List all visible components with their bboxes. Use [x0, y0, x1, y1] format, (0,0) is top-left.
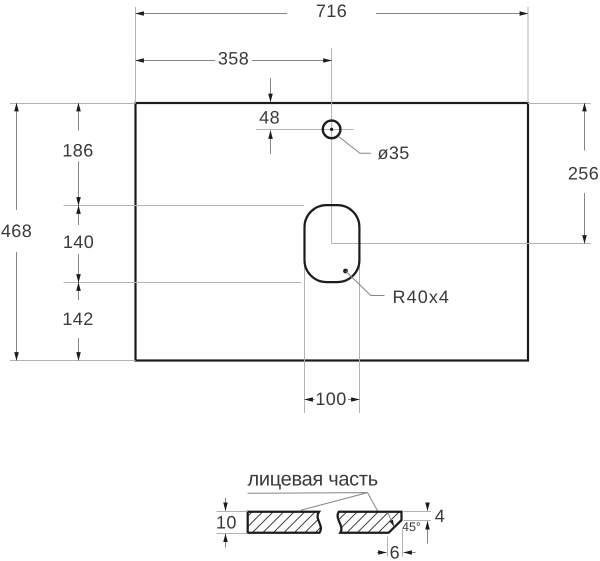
dimension 468 lower part [16, 252, 18, 361]
extension line basin right vertical (100) [359, 266, 361, 413]
extension line top-right horizontal (256) [528, 103, 591, 105]
dimension 142 upper part [78, 283, 80, 301]
45 degree leader arrow [388, 512, 394, 526]
svg-text:256: 256 [568, 163, 599, 183]
dimension 358 line right part [252, 60, 332, 62]
dimension 256 lower part [584, 193, 586, 244]
leader to ø35 label [339, 137, 372, 154]
dimension 140 lower part [78, 254, 80, 283]
extension line 10 top [217, 511, 248, 513]
basin cutout R40x4 [305, 205, 360, 282]
dimension 186 upper part [78, 103, 80, 131]
svg-text:358: 358 [218, 49, 249, 69]
dimension 716 line right part [376, 13, 528, 15]
extension line 4 bottom [404, 520, 432, 522]
centerline through faucet hole [331, 48, 333, 244]
extension line 10 bottom [217, 533, 248, 535]
svg-text:10: 10 [216, 512, 237, 532]
extension line horizontal through hole center (48 dim) [256, 129, 354, 131]
dimension 48 upper arrow [270, 78, 272, 102]
dimension 4 upper arrow [427, 503, 429, 511]
extension line left edge top (716/358) [135, 7, 137, 103]
svg-text:142: 142 [62, 309, 93, 329]
extension line at basin top level (186/140) [64, 205, 305, 207]
extension line right edge top (716) [527, 7, 529, 103]
dimension 100 right arrow [348, 399, 360, 401]
dimension 10 lower arrow [225, 534, 227, 548]
extension line at basin bottom level (140/142) [64, 282, 302, 284]
svg-text:4: 4 [435, 506, 445, 526]
dimension 186 lower part [78, 162, 80, 206]
faucet hole ø35 [323, 121, 341, 139]
svg-text:48: 48 [259, 108, 280, 128]
dimension 716 line left part [136, 13, 288, 15]
extension line top-left horizontal (468/186) [10, 103, 136, 105]
countertop outline [136, 103, 529, 361]
dimension 140 upper part [78, 206, 80, 226]
svg-text:6: 6 [390, 542, 400, 561]
dimension 256 upper part [584, 103, 586, 151]
svg-text:45°: 45° [402, 520, 421, 534]
section right bar (hatched, chamfered) [338, 512, 402, 533]
dimension 6 left arrow [377, 552, 387, 554]
leader horizontal under label [248, 493, 368, 511]
svg-text:100: 100 [315, 389, 346, 409]
dimension 468 upper part [16, 103, 18, 210]
extension line bottom-left horizontal (468/142) [10, 360, 136, 362]
extension line 6 left [387, 537, 389, 557]
dimension 142 lower part [78, 338, 80, 361]
svg-text:140: 140 [63, 232, 94, 252]
extension line basin center horizontal (256) [332, 243, 591, 245]
svg-text:R40x4: R40x4 [393, 287, 451, 307]
leader dot on basin edge [343, 269, 348, 274]
leader leg to right bar [368, 493, 378, 512]
dimension 358 line left part [136, 60, 216, 62]
extension line 4 top [404, 511, 432, 513]
section left bar (hatched) [248, 512, 321, 533]
dimension 10 upper arrow [225, 498, 227, 511]
dimension 48 lower arrow [270, 131, 272, 155]
svg-text:ø35: ø35 [378, 143, 410, 163]
dimension 6 right arrow [404, 552, 416, 554]
leader to R40x4 label [346, 271, 385, 296]
svg-text:лицевая часть: лицевая часть [248, 469, 378, 491]
svg-text:186: 186 [62, 140, 93, 160]
dimension 4 lower arrow [427, 521, 429, 543]
extension line basin left vertical (100) [304, 266, 306, 413]
dimension 100 left arrow [305, 399, 315, 401]
svg-text:716: 716 [316, 1, 347, 21]
faucet hole center dot [330, 128, 333, 131]
svg-text:468: 468 [1, 221, 32, 241]
extension line 6 right [402, 528, 404, 557]
